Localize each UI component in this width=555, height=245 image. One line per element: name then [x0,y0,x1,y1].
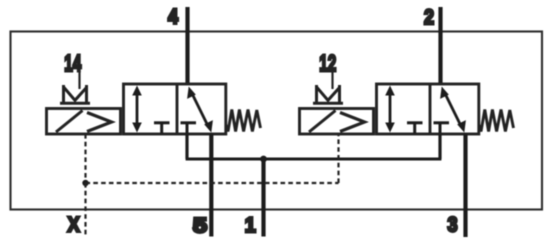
pilot Z-box V1 [60,85,90,104]
position divider V2 [429,84,432,134]
svg-text:5: 5 [193,215,207,238]
pilot signal 12 lead [331,71,333,89]
pilot chevron V2 [340,113,365,132]
blocked port T (left square) V2 [407,123,423,134]
pilot chevron V1 [87,113,112,132]
pilot solenoid box V2 [300,109,374,135]
flow arrow (left square) V1 [132,86,142,133]
exhaust diagonal arrow (right square) V1 [187,87,213,133]
return spring V2 [479,110,514,132]
manifold border [11,32,543,210]
return spring V1 [226,110,261,132]
valve body V2 [377,84,479,134]
pilot wire dashed V1 [84,134,86,183]
svg-text:2: 2 [424,6,434,29]
solenoid slash V1 [56,111,83,133]
port 5 line [209,134,213,237]
pilot signal 14 lead [78,71,80,89]
exhaust diagonal arrow (right square) V2 [440,87,466,133]
port 2 line [438,7,442,84]
blocked port T (right square) V1 [181,123,197,134]
svg-text:X: X [68,214,80,237]
pilot solenoid box V1 [47,109,121,135]
svg-text:4: 4 [168,6,178,29]
pilot wire dashed horizontal [86,182,339,184]
port X dashed line [84,183,86,236]
wire V1 supply drop [185,134,188,159]
junction node port 1 [260,156,267,163]
port 4 line [185,7,189,84]
valve body V1 [124,84,226,134]
blocked port T (left square) V1 [154,123,170,134]
wire supply manifold horizontal [186,158,442,161]
port 3 line [463,134,467,237]
svg-text:1: 1 [245,214,256,237]
pilot wire dashed V2 riser [337,134,339,183]
flow arrow (left square) V2 [385,86,395,133]
svg-text:12: 12 [319,50,336,76]
svg-text:3: 3 [448,214,458,237]
wire V2 supply drop [438,134,441,159]
pilot junction node [82,180,88,186]
solenoid slash V2 [309,111,336,133]
position divider V1 [176,84,179,134]
port 1 line [261,159,265,237]
blocked port T (right square) V2 [434,123,450,134]
pilot Z-box V2 [313,85,343,104]
